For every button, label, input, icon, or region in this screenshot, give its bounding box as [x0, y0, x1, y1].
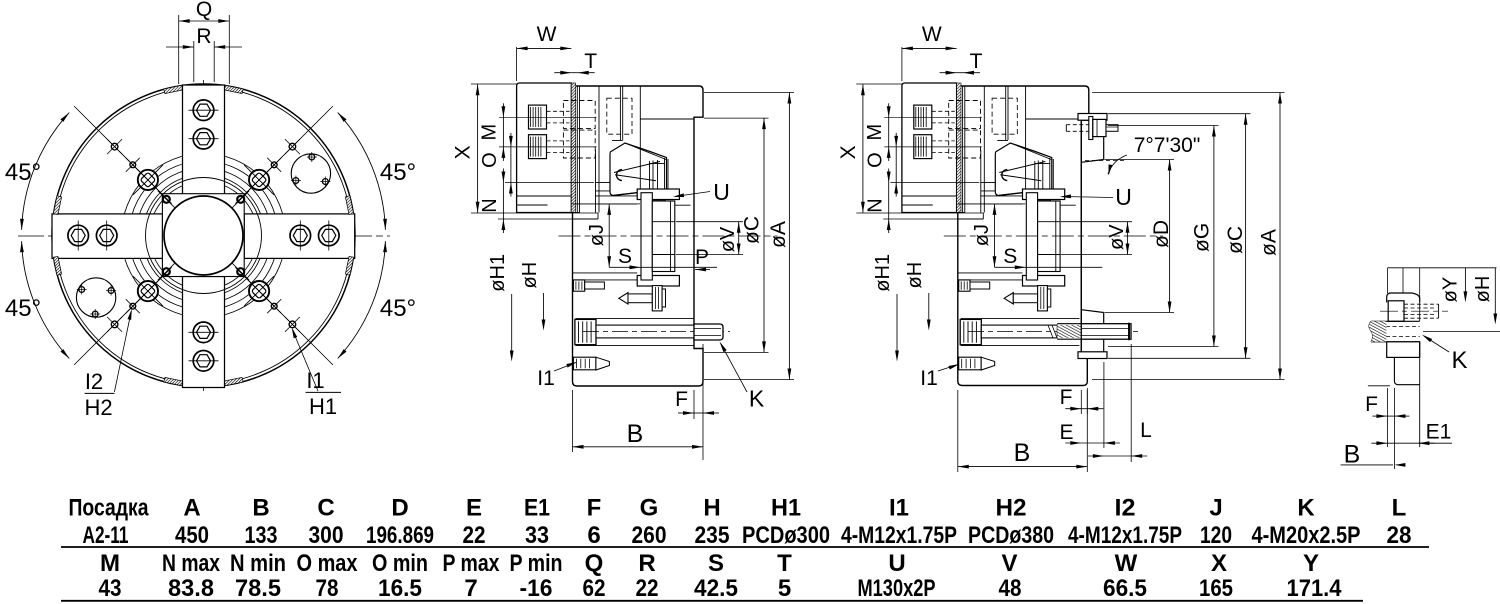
left plug screw [959, 280, 970, 291]
svg-text:300: 300 [309, 522, 344, 549]
svg-text:øG: øG [1191, 223, 1214, 252]
svg-text:H: H [703, 494, 720, 521]
bolt thread into body hatch [1057, 325, 1081, 338]
mounting bolt K shank view3 [981, 325, 1057, 338]
front view centerline horizontal [18, 235, 390, 237]
svg-text:M130x2P: M130x2P [858, 575, 936, 602]
table rule 2 [61, 600, 1363, 602]
svg-text:4-M12x1.75P: 4-M12x1.75P [841, 522, 957, 549]
svg-text:I1: I1 [889, 494, 909, 521]
svg-text:45°: 45° [380, 159, 416, 186]
spindle taper surfaces [1081, 160, 1103, 163]
svg-text:45°: 45° [5, 295, 41, 322]
dimension V diameter [676, 221, 743, 223]
left plug screw [573, 280, 584, 291]
jaw serration band [957, 83, 961, 213]
svg-text:83.8: 83.8 [168, 575, 214, 602]
mounting bolt K head [960, 319, 981, 344]
S P dimension line [995, 266, 1103, 268]
svg-text:F: F [1060, 386, 1073, 409]
dimension J diameter [598, 203, 640, 205]
cap screw 1 [529, 105, 547, 129]
svg-text:X: X [1211, 550, 1227, 577]
dimension H diameter detail [1494, 268, 1496, 317]
svg-text:S: S [1003, 245, 1017, 268]
svg-text:235: 235 [695, 522, 730, 549]
dimension O [890, 182, 979, 184]
bolt head body [1388, 301, 1404, 322]
dimension B view3 [957, 390, 959, 472]
hidden T-nuts dashed [563, 101, 595, 129]
svg-text:D: D [391, 494, 408, 521]
bolt centerline detail [1380, 310, 1448, 312]
jaw right [244, 214, 355, 259]
svg-text:øA: øA [767, 221, 790, 248]
svg-text:C: C [317, 494, 334, 521]
bolt head cap [1387, 293, 1420, 302]
svg-text:66.5: 66.5 [1103, 575, 1147, 602]
svg-text:22: 22 [463, 522, 486, 549]
svg-text:P min: P min [510, 550, 563, 577]
adapter plate body [1080, 120, 1082, 352]
svg-text:43: 43 [99, 575, 122, 602]
dimension F view3 [1080, 390, 1082, 414]
svg-text:G: G [640, 494, 659, 521]
svg-text:R: R [638, 550, 655, 577]
body inner verticals top [1005, 86, 1007, 140]
center set screw with cone tip [1004, 293, 1013, 304]
svg-text:T: T [970, 50, 983, 73]
index flange circle at 210 deg [76, 278, 115, 317]
jaw serration band [571, 83, 575, 213]
dimension Q [178, 15, 180, 84]
svg-text:PCDø300: PCDø300 [742, 522, 830, 549]
spindle pilot bore lines [639, 86, 641, 189]
svg-text:196.869: 196.869 [366, 522, 434, 549]
hidden pinion dashed box [992, 98, 1017, 134]
dimension M [888, 117, 890, 147]
I1 stud [573, 357, 596, 370]
stud top right dashed hole part [1066, 124, 1089, 126]
svg-text:B: B [1344, 441, 1361, 469]
wedge pocket bottom steps [595, 195, 641, 197]
dimension N [883, 218, 983, 220]
svg-text:120: 120 [1200, 522, 1232, 549]
svg-text:øV: øV [717, 226, 739, 252]
svg-text:-16: -16 [520, 575, 553, 602]
jaw block outline [517, 83, 572, 213]
table rule 1 [61, 546, 1429, 548]
svg-text:O: O [479, 152, 501, 168]
svg-text:45°: 45° [5, 159, 41, 186]
jaw return spring area lines [964, 86, 966, 213]
dimension T [571, 72, 577, 74]
jaw block step lines [902, 195, 957, 197]
wedge block [610, 143, 667, 196]
wedge block [995, 143, 1052, 196]
svg-text:H1: H1 [771, 494, 801, 521]
jaw left [52, 214, 163, 259]
jaw bottom [183, 277, 225, 388]
bolt counterbore lines [961, 318, 1080, 320]
central square guide [162, 194, 244, 277]
bolt shank dashed right [1404, 303, 1439, 305]
dimension F view2 [693, 390, 695, 419]
dimension X [471, 83, 517, 85]
svg-text:45°: 45° [380, 295, 416, 322]
svg-text:W: W [1115, 550, 1138, 577]
hidden pinion dashed box [607, 98, 632, 134]
body inner verticals top [619, 86, 621, 140]
sleeve flange top [1023, 189, 1065, 200]
svg-text:V: V [1001, 550, 1017, 577]
svg-text:78.5: 78.5 [235, 575, 281, 602]
svg-text:U: U [1115, 184, 1132, 210]
svg-text:R: R [196, 25, 211, 48]
svg-text:øY: øY [1440, 277, 1462, 303]
dimension T [957, 72, 963, 74]
svg-text:I1: I1 [537, 367, 555, 390]
adapter plate back cap bottom [1078, 352, 1107, 359]
index flange circle at 30 deg [291, 154, 330, 193]
svg-text:E: E [466, 494, 482, 521]
sleeve flange bottom [1023, 276, 1065, 287]
svg-text:6: 6 [587, 522, 600, 549]
section view 2 body outline [958, 86, 1089, 386]
jaw block step lines [517, 195, 572, 197]
dimension G diameter [1108, 125, 1219, 127]
svg-text:M: M [864, 124, 886, 141]
svg-text:øC: øC [741, 216, 764, 244]
svg-text:H1: H1 [309, 394, 337, 419]
svg-text:B: B [252, 494, 269, 521]
wedge hook detail [617, 170, 623, 181]
svg-text:L: L [1392, 494, 1407, 521]
dimension H diameter [928, 293, 930, 322]
master jaw step lines [596, 182, 611, 184]
dimension A diameter view3 [1092, 92, 1285, 94]
lower neck step [1394, 357, 1419, 384]
svg-text:P: P [695, 246, 709, 269]
svg-text:øH1: øH1 [872, 254, 894, 292]
dimension C diameter [704, 117, 769, 119]
svg-text:450: 450 [175, 522, 209, 549]
svg-text:S: S [618, 245, 632, 268]
svg-text:PCDø380: PCDø380 [968, 522, 1054, 549]
mounting bolt K shank view2 [596, 325, 694, 338]
svg-text:Посадка: Посадка [69, 494, 150, 521]
svg-text:165: 165 [1199, 575, 1233, 602]
svg-text:K: K [1451, 347, 1467, 374]
svg-text:A2-11: A2-11 [83, 522, 129, 549]
pinion sockets on diagonals [138, 170, 158, 190]
svg-text:K: K [1297, 494, 1315, 521]
bolt through plate and end [1081, 324, 1131, 340]
svg-text:78: 78 [316, 575, 339, 602]
svg-text:E1: E1 [1426, 421, 1452, 444]
master jaw column verticals [576, 86, 578, 213]
svg-text:P max: P max [443, 550, 501, 577]
dimension N [498, 218, 598, 220]
S P dimension line [609, 266, 717, 268]
jaw top [183, 85, 225, 195]
svg-text:28: 28 [1387, 522, 1412, 549]
rim bar section [1371, 320, 1420, 322]
svg-text:42.5: 42.5 [694, 575, 738, 602]
sleeve tube [1038, 201, 1061, 272]
bolt K protruding end [694, 324, 723, 340]
dimension H1 diameter [511, 294, 513, 352]
stud thread end [1106, 125, 1118, 132]
dimension V diameter view3 [1061, 221, 1132, 223]
wedge hook detail [1002, 170, 1007, 181]
bolt counterbore lines [576, 318, 695, 320]
detail extension lines top [1387, 268, 1389, 293]
svg-text:I1: I1 [306, 368, 324, 393]
spindle pilot bore lines [1025, 86, 1027, 189]
master jaw step lines [981, 182, 996, 184]
serration patches at jaw-rim junctions [345, 196, 353, 215]
sleeve tube [652, 201, 675, 272]
feature line for H [1423, 330, 1500, 332]
svg-text:øD: øD [1150, 220, 1173, 248]
dimension M [502, 117, 504, 147]
svg-text:Q: Q [196, 0, 212, 21]
jaw return spring area lines [579, 86, 581, 213]
svg-text:øJ: øJ [971, 224, 993, 246]
svg-text:133: 133 [245, 522, 278, 549]
svg-text:O: O [864, 152, 886, 168]
svg-text:48: 48 [999, 575, 1022, 602]
wedge pocket bottom steps [980, 195, 1026, 197]
corner screws of central square [163, 196, 170, 203]
dimension H1 diameter [896, 294, 898, 352]
guide corner arc circle [146, 178, 262, 294]
svg-text:N max: N max [162, 550, 221, 577]
sleeve plate [1026, 193, 1037, 280]
wedge T slot parts [649, 161, 651, 190]
svg-text:B: B [1014, 439, 1031, 467]
section centerline [559, 235, 778, 237]
dimension W [901, 47, 903, 81]
sleeve plate [641, 193, 652, 280]
svg-text:I2: I2 [1115, 494, 1136, 521]
jaw mounting screws [193, 100, 214, 121]
svg-text:T: T [584, 50, 597, 73]
dimension F detail [1387, 415, 1394, 417]
master jaw column verticals [962, 86, 964, 213]
mount holes PCD380 [111, 143, 118, 150]
stud nut [1093, 119, 1106, 136]
lower block [1387, 342, 1420, 358]
svg-text:260: 260 [632, 522, 667, 549]
svg-text:øC: øC [1224, 226, 1247, 254]
sleeve flange bottom [637, 276, 679, 287]
svg-text:S: S [708, 550, 724, 577]
svg-text:171.4: 171.4 [1287, 575, 1343, 602]
dimension X [856, 83, 902, 85]
diagonal centerlines [74, 106, 172, 204]
section view 1 body outline [573, 86, 704, 386]
svg-text:O max: O max [297, 550, 359, 577]
svg-text:F: F [675, 388, 688, 411]
mounting bolt K head [575, 319, 596, 344]
svg-text:øH1: øH1 [487, 254, 509, 292]
cap screw 2 [529, 135, 547, 159]
svg-text:5: 5 [778, 575, 791, 602]
svg-text:N min: N min [230, 550, 286, 577]
svg-text:22: 22 [636, 575, 659, 602]
bolt centerline view3 [968, 331, 1140, 333]
svg-text:E: E [1059, 421, 1073, 444]
svg-text:øH: øH [1472, 276, 1494, 303]
dimension O [505, 182, 594, 184]
dimension L view3 [1130, 344, 1132, 462]
svg-text:X: X [452, 145, 475, 159]
wedge T slot parts [1034, 161, 1036, 190]
dimension B detail [1341, 464, 1393, 466]
svg-text:M: M [479, 124, 501, 141]
svg-text:M: M [100, 550, 120, 577]
svg-text:F: F [587, 494, 602, 521]
dimension A diameter [704, 92, 794, 94]
svg-text:J: J [1209, 494, 1222, 521]
bolt centerline view2 [583, 331, 730, 333]
svg-text:H2: H2 [84, 395, 112, 420]
svg-text:4-M12x1.75P: 4-M12x1.75P [1068, 522, 1182, 549]
svg-text:W: W [922, 23, 942, 46]
dimension B view2 [572, 390, 574, 452]
svg-text:øH: øH [904, 262, 926, 289]
F ext line detail [1368, 385, 1390, 387]
body bore step lines [573, 272, 638, 274]
cap screw 1 [914, 105, 932, 129]
jaw block outline [902, 83, 957, 213]
dimension E view3 [1103, 362, 1105, 448]
svg-text:øJ: øJ [586, 224, 608, 246]
svg-text:K: K [749, 386, 765, 412]
adapter plate back cap top [1078, 114, 1107, 121]
svg-text:B: B [627, 420, 644, 448]
chuck body outer rim circles [52, 84, 355, 387]
svg-text:H2: H2 [996, 494, 1027, 521]
front view centerline vertical [203, 80, 205, 391]
dimension C diameter view3 [1108, 113, 1251, 115]
svg-text:O min: O min [372, 550, 428, 577]
cap screw 2 [914, 135, 932, 159]
section centerline [944, 235, 1163, 237]
svg-text:I1: I1 [920, 367, 938, 390]
stud washer [1089, 117, 1093, 140]
dimension J diameter [983, 203, 1025, 205]
svg-text:øV: øV [1106, 224, 1128, 250]
I1 stud [959, 357, 982, 370]
dimension Y diameter [1464, 268, 1466, 295]
sleeve flange top [637, 189, 679, 200]
svg-text:øA: øA [1258, 229, 1281, 256]
dimension D diameter [1105, 159, 1175, 161]
svg-text:W: W [537, 23, 557, 46]
svg-text:Q: Q [585, 550, 604, 577]
central bore [164, 196, 243, 275]
svg-text:7: 7 [464, 575, 477, 602]
center set screw with cone tip [619, 293, 628, 304]
svg-text:62: 62 [583, 575, 606, 602]
hidden T-nuts dashed [949, 101, 981, 129]
svg-text:L: L [1140, 419, 1152, 442]
svg-text:N: N [864, 198, 886, 212]
dimension W [516, 47, 518, 81]
svg-text:U: U [888, 550, 905, 577]
body bore step lines [958, 272, 1023, 274]
svg-text:T: T [777, 550, 792, 577]
svg-text:U: U [713, 179, 730, 205]
svg-text:X: X [837, 145, 860, 159]
svg-text:16.5: 16.5 [378, 575, 422, 602]
mount holes PCD300 [130, 162, 136, 168]
svg-text:N: N [479, 198, 501, 212]
svg-text:øH: øH [519, 262, 541, 289]
scroll ring circles [150, 182, 258, 290]
dimension R [193, 41, 195, 82]
svg-text:4-M20x2.5P: 4-M20x2.5P [1252, 522, 1361, 549]
dimension H diameter [543, 293, 545, 322]
svg-text:A: A [183, 494, 200, 521]
svg-text:Y: Y [1303, 550, 1319, 577]
svg-text:7°7'30": 7°7'30" [1134, 134, 1201, 157]
svg-text:I2: I2 [85, 369, 103, 394]
svg-text:E1: E1 [524, 494, 550, 521]
svg-text:F: F [1365, 393, 1378, 416]
svg-text:33: 33 [525, 522, 549, 549]
45 degree dimension arcs [22, 113, 70, 230]
dimension E1 detail [1387, 442, 1418, 444]
dimension P arrow and label [695, 268, 706, 272]
